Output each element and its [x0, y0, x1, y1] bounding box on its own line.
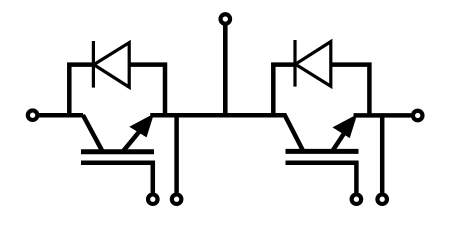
wire: auxiliary emitter E2 drop — [380, 115, 385, 192]
diode D2 anode triangle — [295, 42, 330, 87]
wire: Q1 collector diagonal — [83, 115, 103, 152]
wire: C1 terminal to Q1 collector bend — [39, 113, 84, 118]
terminal circle G2 (gate, bottom right) — [352, 194, 362, 204]
terminal circle E2 (right) — [413, 111, 423, 121]
transistor Q1 emitter diagonal — [123, 118, 151, 152]
terminal circle auxiliary E2 — [377, 194, 387, 204]
wire: Q2 collector diagonal from bus bend — [282, 115, 304, 151]
transistor Q2 emitter diagonal — [332, 119, 354, 152]
wire: top terminal lead — [223, 24, 228, 115]
diode D1 loop wire (cathode side vertical, top run, anode side vertical) — [69, 65, 165, 116]
terminal circle auxiliary E1 — [172, 194, 182, 204]
diode D2 cathode bar — [293, 40, 296, 87]
diode D1 anode triangle — [94, 43, 129, 88]
transistor Q1 gate bar with bend down to G1 — [81, 163, 153, 193]
transistor Q2 emitter arrowhead — [335, 116, 356, 136]
wire: auxiliary emitter E1 drop — [174, 115, 179, 192]
wire: E2 node to right terminal — [354, 113, 412, 118]
diode D1 cathode bar — [92, 41, 95, 88]
transistor Q2 gate bar with bend down to G2 — [286, 163, 357, 193]
terminal circle G1 (gate, bottom left) — [148, 194, 158, 204]
diode D2 loop wire (cathode side vertical, top run, anode side vertical) — [273, 65, 369, 116]
terminal circle C1 (left) — [28, 110, 38, 120]
wire: center bus node E1/C2 — [150, 113, 284, 118]
transistor Q1 channel bar — [81, 149, 154, 154]
terminal circle top (E1/C2 midpoint) — [221, 14, 231, 24]
transistor Q2 channel bar — [286, 149, 359, 154]
transistor Q1 emitter arrowhead — [131, 116, 152, 136]
